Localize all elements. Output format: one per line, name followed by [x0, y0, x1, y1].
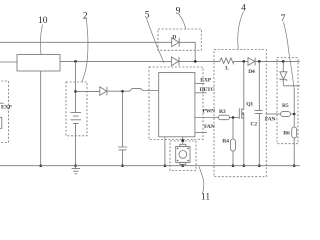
module box 5 (dashed): [149, 67, 203, 140]
module box 10: [17, 55, 60, 72]
leader line for label 10: [40, 25, 42, 55]
leader line for label 5: [147, 18, 165, 63]
resistor R4: [231, 139, 236, 151]
svg-text:DETC: DETC: [200, 87, 215, 93]
junction R5/R6: [293, 113, 296, 116]
module box 11 (dashed): [170, 141, 196, 171]
component fragment at left edge: [0, 117, 2, 128]
pin PWM wire to R3: [195, 117, 219, 119]
wire: R4 stem: [232, 118, 234, 166]
diode D4: [248, 58, 255, 66]
junction main/battery: [74, 60, 77, 63]
svg-text:L: L: [225, 66, 229, 72]
transistor Q1: [239, 61, 244, 165]
leader line for label 11: [199, 167, 204, 194]
diode D3 on main wire: [171, 57, 179, 66]
junction R4/rail: [232, 164, 235, 167]
svg-text:EXP: EXP: [1, 104, 12, 110]
pin FAN stub: [195, 131, 207, 133]
wire: divider feed: [293, 89, 295, 114]
wire stub at left edge: [0, 102, 4, 104]
junction motor/rail: [181, 164, 184, 167]
pin EXP stub: [195, 82, 204, 84]
junction IC-gnd/rail: [164, 164, 167, 167]
svg-text:R3: R3: [219, 109, 226, 115]
wire: zener out to right edge: [283, 80, 300, 86]
battery cells: [71, 112, 82, 123]
wire: left input to box 10: [0, 61, 17, 63]
junction R6/rail: [293, 164, 296, 167]
wire: FAN sense to R5: [266, 113, 281, 115]
resistor R5: [281, 112, 291, 117]
svg-text:5: 5: [145, 10, 150, 20]
wire: battery to IC input: [76, 89, 159, 92]
module box 7 (dashed): [277, 58, 298, 144]
svg-text:R4: R4: [222, 138, 229, 144]
ground: [72, 166, 80, 174]
svg-text:11: 11: [201, 192, 210, 200]
junction C1 tap: [121, 90, 124, 93]
svg-text:EXP: EXP: [200, 77, 211, 83]
wire: IC to motor: [182, 137, 184, 145]
resistor R6: [292, 127, 297, 138]
leader line for label 4: [238, 12, 244, 50]
capacitor C1: [118, 147, 127, 150]
resistor R3: [218, 115, 229, 120]
diode D in box 9: [172, 38, 180, 47]
zener diode DW: [280, 61, 287, 81]
svg-text:FAN: FAN: [265, 117, 277, 123]
wire: IC ground pin: [164, 137, 166, 166]
junction main/rail-drop: [194, 60, 197, 63]
svg-text:10: 10: [38, 16, 48, 26]
module box 9 (dashed): [158, 29, 201, 50]
leader line for label 9: [179, 14, 186, 29]
svg-text:C2: C2: [250, 121, 257, 127]
wire: R5 to divider: [291, 113, 295, 115]
svg-text:R6: R6: [283, 131, 290, 137]
module box 4 (dashed): [214, 50, 266, 177]
diode D2: [100, 87, 107, 96]
wire: top rail: [0, 42, 195, 61]
module box 2 (dashed): [66, 82, 87, 136]
wire: ground rail: [0, 165, 300, 167]
junction battery/rail: [74, 164, 77, 167]
junction C2 tap: [258, 60, 261, 63]
junction C1/rail: [121, 164, 124, 167]
junction battery/output: [74, 90, 77, 93]
wire: C1 stem: [122, 91, 124, 165]
junction zener tap: [282, 60, 285, 63]
wire: C2 stem: [258, 61, 260, 165]
svg-text:Q1: Q1: [246, 102, 253, 108]
wire: R3 to Q1 gate: [230, 117, 240, 119]
junction L/Q1: [243, 60, 246, 63]
wire: main horizontal net: [60, 60, 300, 62]
leader line for label 2: [82, 19, 88, 82]
capacitor C2: [255, 110, 263, 113]
svg-text:2: 2: [83, 11, 88, 21]
wire: box 10 bottom to ground rail: [40, 71, 42, 166]
pin DETC stub: [195, 92, 207, 94]
svg-text:R5: R5: [282, 103, 289, 109]
junction C2/rail: [258, 164, 261, 167]
wire: battery stem: [75, 61, 77, 165]
motor/fan M (11): [176, 144, 190, 165]
junction box10-rail: [39, 164, 42, 167]
junction Q1/rail: [243, 164, 246, 167]
wire: R6 stem: [293, 114, 295, 166]
svg-text:7: 7: [281, 14, 286, 24]
junction motor feed: [181, 139, 184, 142]
svg-text:D4: D4: [248, 69, 255, 75]
svg-text:D: D: [172, 35, 176, 41]
inductor L: [220, 58, 234, 64]
module box 1 (dashed, cut at left): [0, 81, 9, 143]
junction R3/R4: [232, 116, 235, 119]
leader line for label 7: [284, 22, 295, 89]
IC U1: [159, 73, 195, 137]
